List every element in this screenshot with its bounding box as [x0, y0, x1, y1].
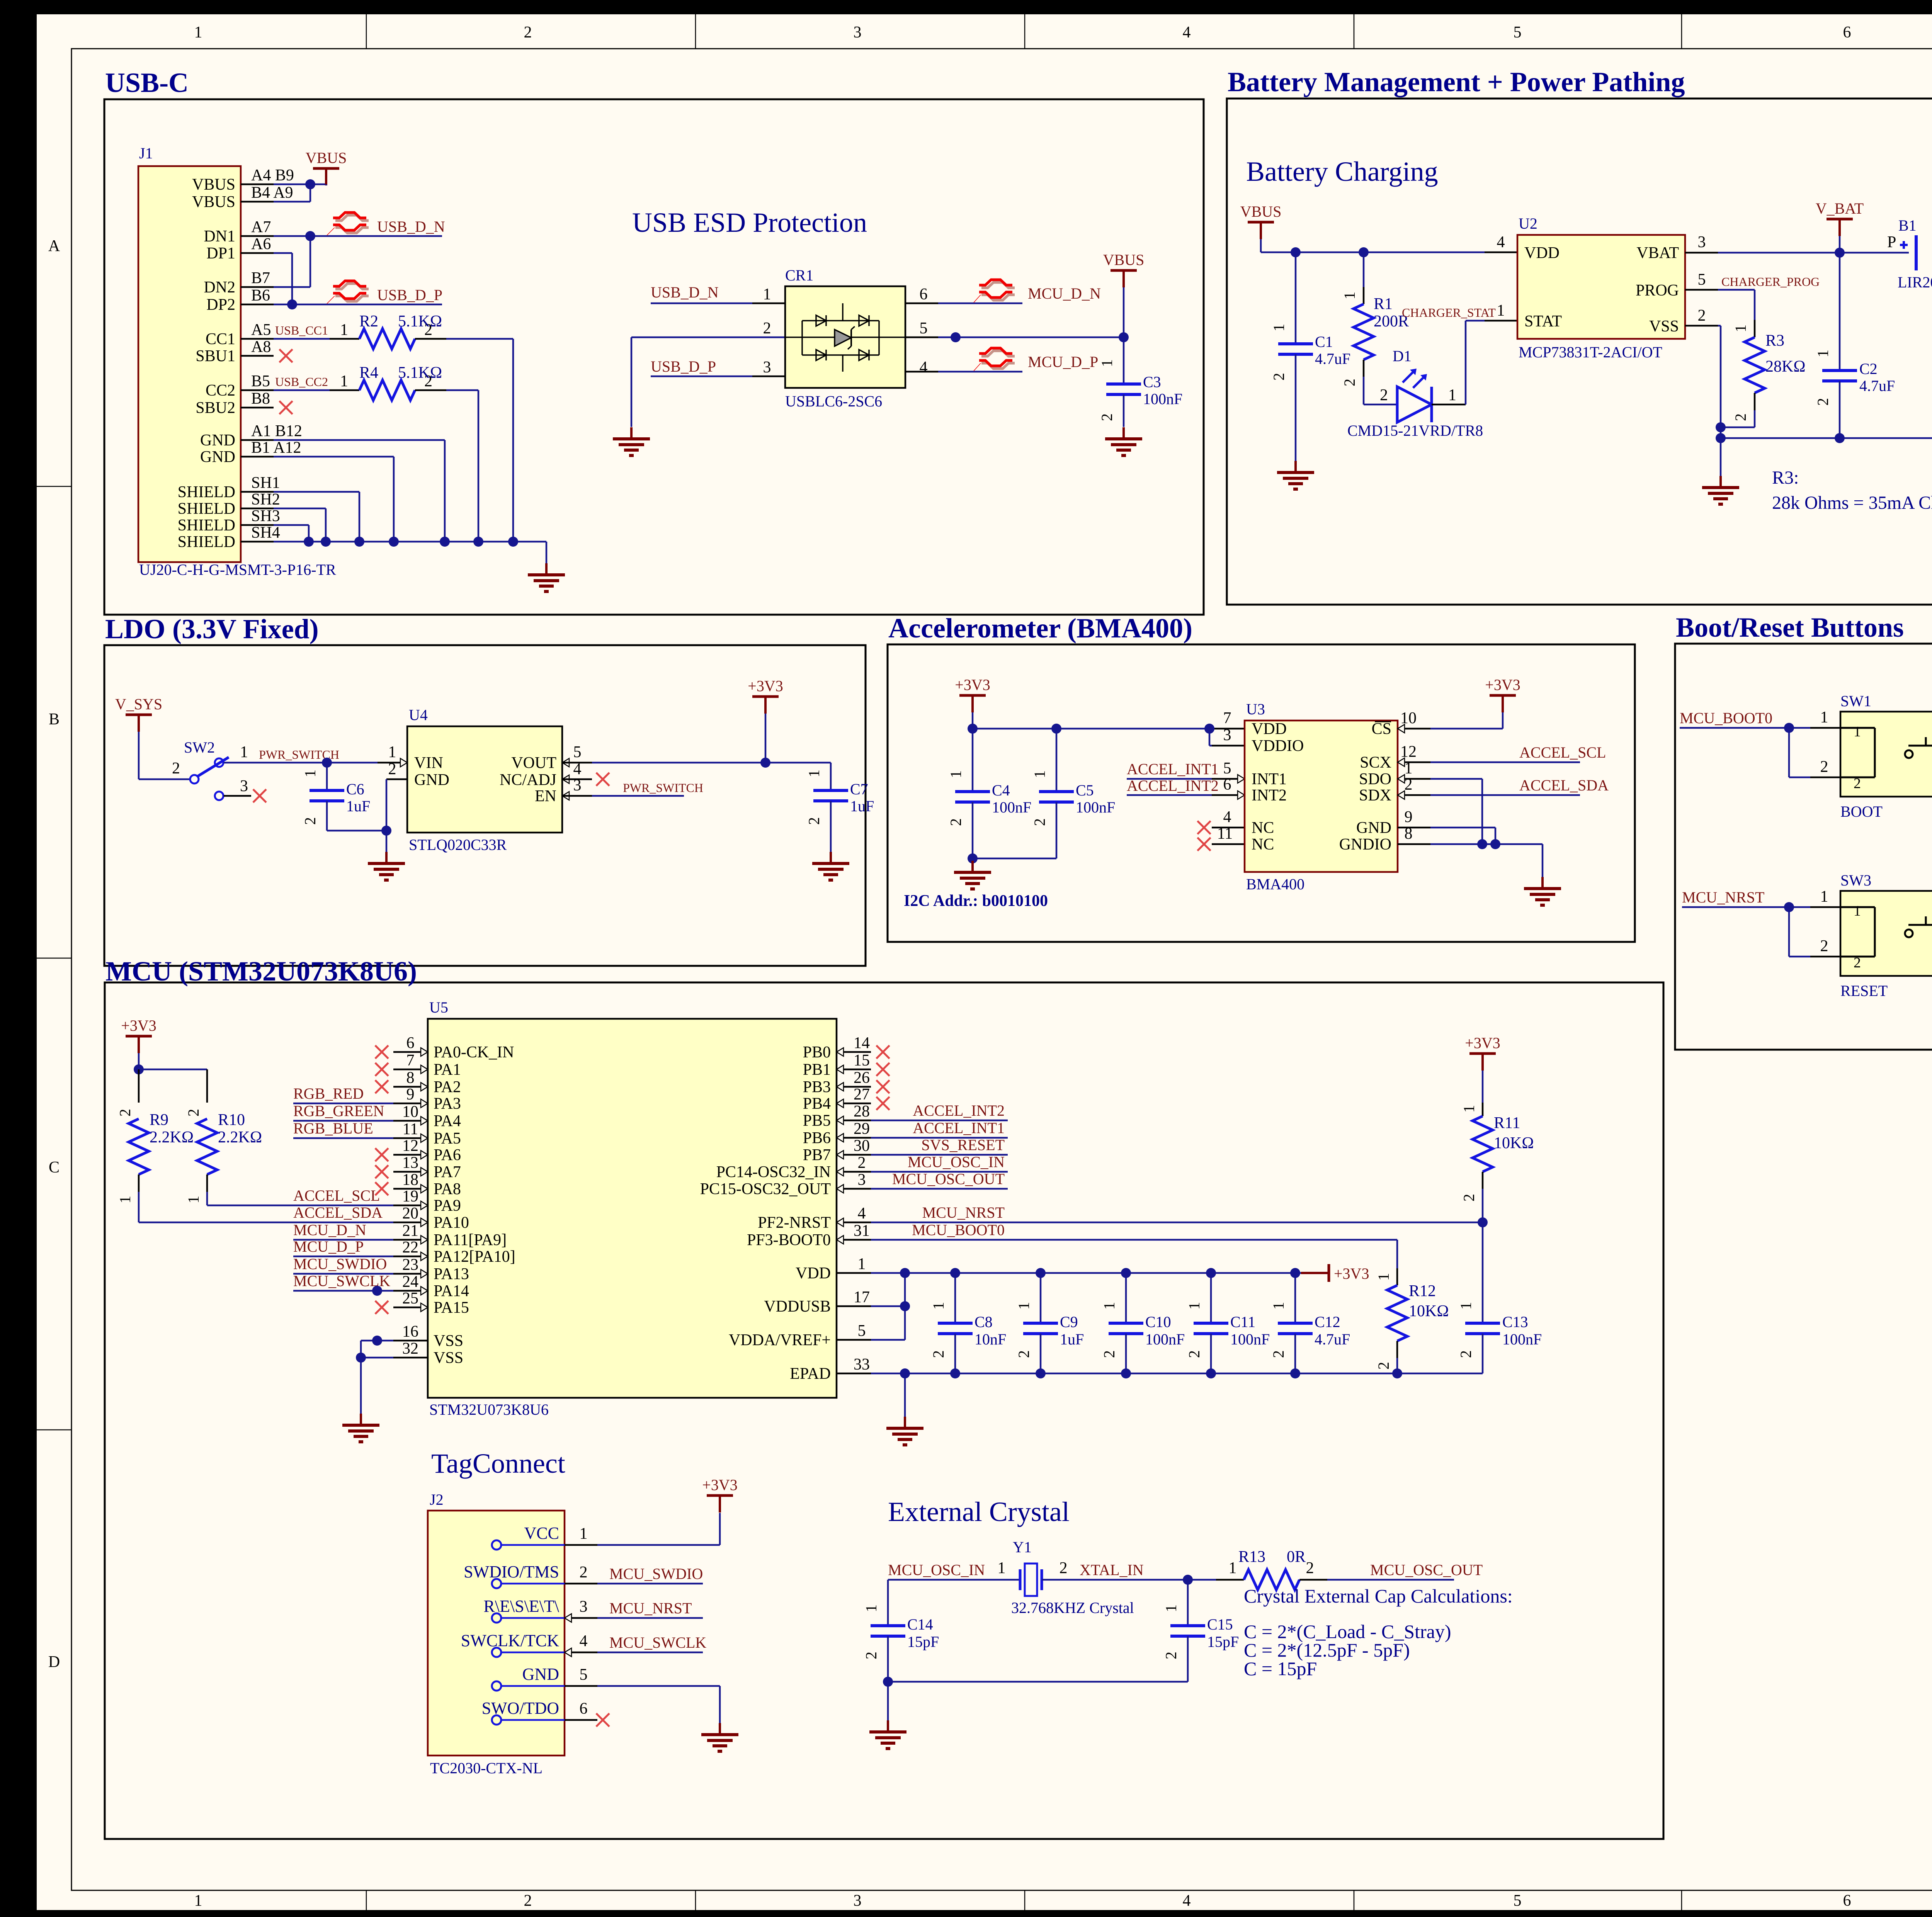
svg-text:SHIELD: SHIELD: [178, 517, 235, 534]
resistor R3 28K: [1754, 320, 1756, 337]
junction: [1835, 248, 1845, 258]
U5 pin 23 PA13: [393, 1273, 428, 1275]
svg-text:1: 1: [185, 1196, 202, 1203]
J1 pin B5 CC2: [241, 389, 274, 391]
no-connect SBU1: [279, 349, 293, 362]
svg-text:R1: R1: [1374, 295, 1393, 313]
svg-text:RGB_BLUE: RGB_BLUE: [293, 1120, 373, 1137]
svg-text:USB_CC2: USB_CC2: [275, 375, 328, 389]
svg-text:SVS_RESET: SVS_RESET: [921, 1136, 1005, 1154]
svg-text:2: 2: [1060, 1559, 1068, 1577]
wire vss down: [360, 1341, 362, 1414]
svg-text:MCU_SWDIO: MCU_SWDIO: [609, 1565, 703, 1582]
U5 pin 14 PB0: [837, 1051, 871, 1053]
junction: [389, 537, 399, 547]
U5 pin 33 EPAD: [837, 1373, 871, 1375]
wire MCU_BOOT0 (mcu): [871, 1239, 1397, 1241]
svg-text:0R: 0R: [1287, 1548, 1306, 1566]
J1 pin SH2 SHIELD: [241, 508, 274, 510]
wire GND2 to bus: [274, 456, 394, 458]
junction: [1478, 1217, 1488, 1227]
U5 pin 31 PF3-BOOT0: [837, 1239, 871, 1241]
svg-text:4: 4: [920, 359, 928, 376]
svg-text:5: 5: [858, 1322, 866, 1340]
svg-text:3: 3: [580, 1598, 588, 1616]
wire MCU_OSC_OUT: [1327, 1579, 1454, 1581]
U5 pin 19 PA9: [393, 1205, 428, 1207]
svg-text:6: 6: [1843, 24, 1851, 41]
svg-text:1: 1: [998, 1559, 1006, 1577]
U5 pin 13 PA7: [393, 1171, 428, 1173]
J1 pin SH1 SHIELD: [241, 491, 274, 493]
U5 pin 30 PB7: [837, 1154, 871, 1156]
wire VBUS pin B4A9: [274, 201, 310, 203]
junction: [372, 1286, 382, 1296]
svg-text:MCU_BOOT0: MCU_BOOT0: [1680, 709, 1772, 727]
capacitor C5 100nF: [1056, 729, 1058, 792]
svg-text:28k Ohms = 35mA Charge Current: 28k Ohms = 35mA Charge Current: [1772, 493, 1932, 513]
resistor R4 5.1K: [274, 389, 330, 391]
capacitor C10 100nF: [1121, 1268, 1131, 1278]
capacitor C14 15pF: [887, 1580, 889, 1626]
wire boot0 pin2: [1788, 728, 1790, 777]
diff pair marker USB_D_P: [335, 284, 369, 289]
wire SDO to GNDIO: [1398, 778, 1430, 780]
svg-text:VDD: VDD: [1252, 720, 1287, 738]
U5 pin 29 PB6: [837, 1137, 871, 1139]
svg-text:STM32U073K8U6: STM32U073K8U6: [429, 1401, 549, 1418]
U5 pin 28 PB5: [837, 1120, 871, 1122]
J1 pin B4 A9 VBUS: [241, 201, 274, 203]
svg-text:CHARGER_STAT: CHARGER_STAT: [1402, 306, 1496, 319]
svg-text:SH3: SH3: [251, 507, 280, 525]
svg-text:SBU2: SBU2: [196, 399, 235, 417]
svg-text:MCU_OSC_IN: MCU_OSC_IN: [888, 1561, 985, 1579]
svg-text:1: 1: [580, 1525, 588, 1543]
wire VDDUSB: [871, 1305, 905, 1307]
svg-text:MCU_D_N: MCU_D_N: [293, 1221, 366, 1239]
no-connect U5 left: [375, 1063, 388, 1076]
svg-text:GND: GND: [522, 1665, 559, 1684]
svg-text:PB5: PB5: [803, 1112, 831, 1130]
U5 pin 16 VSS: [393, 1340, 428, 1342]
wire CR1 pin4 MCU_D_P: [905, 371, 938, 373]
svg-text:INT2: INT2: [1252, 787, 1287, 804]
wire U4 GND: [386, 778, 407, 780]
svg-text:V_BAT: V_BAT: [1816, 200, 1864, 217]
svg-text:DP2: DP2: [206, 296, 235, 314]
svg-text:ACCEL_SCL: ACCEL_SCL: [293, 1187, 380, 1204]
wire CR1 pin5 to VBUS: [905, 336, 938, 338]
junction: [968, 853, 978, 863]
svg-text:7: 7: [406, 1052, 415, 1069]
no-connect U5 right: [876, 1080, 889, 1093]
svg-text:26: 26: [854, 1069, 870, 1087]
svg-text:25: 25: [402, 1290, 418, 1307]
ground charger: [1719, 476, 1722, 488]
svg-text:USBLC6-2SC6: USBLC6-2SC6: [785, 393, 882, 410]
svg-text:10nF: 10nF: [975, 1331, 1006, 1348]
svg-text:CS: CS: [1372, 720, 1391, 738]
svg-text:32.768KHZ Crystal: 32.768KHZ Crystal: [1011, 1599, 1134, 1616]
svg-text:ACCEL_SDA: ACCEL_SDA: [293, 1204, 383, 1221]
svg-text:A7: A7: [251, 218, 271, 236]
svg-text:C: C: [49, 1159, 60, 1176]
svg-text:1: 1: [1229, 1559, 1237, 1577]
U5 pin 1 VDD: [837, 1272, 871, 1274]
svg-text:1: 1: [805, 770, 823, 777]
svg-text:LIR2032: LIR2032: [1898, 274, 1932, 291]
connector J1: [138, 166, 241, 562]
ground U4: [385, 852, 388, 863]
junction: [321, 537, 331, 547]
svg-text:7: 7: [1223, 709, 1231, 727]
U5 pin 4 PF2-NRST: [837, 1222, 871, 1224]
svg-text:TC2030-CTX-NL: TC2030-CTX-NL: [430, 1759, 543, 1777]
junction: [322, 758, 332, 768]
junction: [356, 1353, 366, 1363]
svg-text:Y1: Y1: [1013, 1538, 1032, 1556]
svg-text:R10: R10: [218, 1111, 245, 1129]
svg-text:U5: U5: [429, 999, 448, 1016]
svg-text:3: 3: [1223, 726, 1231, 744]
svg-text:PA0-CK_IN: PA0-CK_IN: [434, 1043, 514, 1061]
svg-text:15pF: 15pF: [1207, 1633, 1239, 1650]
svg-text:14: 14: [854, 1034, 870, 1052]
svg-text:SHIELD: SHIELD: [178, 483, 235, 501]
svg-text:1: 1: [116, 1196, 134, 1203]
svg-text:4: 4: [1183, 24, 1191, 41]
svg-text:R\E\S\E\T\: R\E\S\E\T\: [483, 1597, 559, 1616]
J2 pin 6 SWO/TDO: [492, 1715, 501, 1725]
svg-text:VDDIO: VDDIO: [1252, 737, 1304, 755]
J1 pin A1 B12 GND: [241, 439, 274, 441]
svg-text:+3V3: +3V3: [955, 676, 990, 693]
resistor R13 0R: [1188, 1579, 1216, 1581]
svg-text:XTAL_IN: XTAL_IN: [1080, 1561, 1144, 1579]
resistor R1 200R: [1363, 252, 1365, 287]
wire D1 to STAT: [1432, 404, 1466, 406]
section box LDO: [104, 645, 866, 966]
wire SH3 to bus: [274, 524, 309, 526]
wire MCU_D_P: [293, 1256, 393, 1258]
svg-text:C12: C12: [1315, 1313, 1340, 1331]
wire VBAT to V_BAT: [1685, 252, 1718, 254]
svg-text:1uF: 1uF: [850, 797, 874, 815]
svg-text:5: 5: [573, 743, 582, 761]
wire VCC to 3V3: [597, 1544, 720, 1546]
svg-text:ACCEL_INT2: ACCEL_INT2: [1127, 777, 1219, 794]
svg-text:PA4: PA4: [434, 1112, 461, 1130]
svg-text:PA15: PA15: [434, 1299, 469, 1317]
svg-text:VDDA/VREF+: VDDA/VREF+: [729, 1331, 831, 1349]
svg-text:A6: A6: [251, 235, 271, 253]
svg-text:1: 1: [1854, 903, 1861, 919]
svg-text:6: 6: [1843, 1892, 1851, 1910]
svg-text:PWR_SWITCH: PWR_SWITCH: [623, 781, 703, 795]
svg-text:ACCEL_INT1: ACCEL_INT1: [1127, 760, 1219, 778]
svg-text:2: 2: [1854, 775, 1861, 792]
svg-text:2: 2: [172, 760, 180, 777]
svg-text:10KΩ: 10KΩ: [1409, 1302, 1449, 1320]
svg-text:+3V3: +3V3: [1334, 1265, 1369, 1282]
svg-text:15: 15: [854, 1052, 870, 1069]
U5 pin 2 PC14-OSC32_IN: [837, 1171, 871, 1173]
wire MCU_SWDIO (tag): [597, 1583, 703, 1585]
svg-text:STAT: STAT: [1524, 313, 1562, 330]
wire VOUT to 3V3: [562, 762, 592, 764]
svg-text:3: 3: [1698, 233, 1706, 251]
wire MCU_NRST (tag): [597, 1617, 703, 1619]
junction: [305, 179, 315, 189]
wire SW2 pin3 nc: [224, 795, 251, 797]
wire VSS down: [1685, 325, 1718, 327]
svg-text:1: 1: [340, 321, 348, 339]
svg-text:SHIELD: SHIELD: [178, 533, 235, 551]
U5 pin 17 VDDUSB: [837, 1305, 871, 1307]
svg-text:VSS: VSS: [434, 1332, 463, 1350]
svg-text:1: 1: [1185, 1302, 1203, 1310]
switch SW3: [1840, 891, 1932, 976]
svg-text:SH2: SH2: [251, 491, 280, 508]
wire VDDA: [871, 1339, 905, 1341]
svg-text:6: 6: [920, 286, 928, 303]
regulator U4: [407, 726, 562, 833]
svg-text:MCU_D_N: MCU_D_N: [1028, 285, 1101, 302]
capacitor C15 15pF: [1187, 1580, 1189, 1626]
no-connect U5 left: [375, 1045, 388, 1059]
svg-text:PB0: PB0: [803, 1043, 831, 1061]
svg-text:2: 2: [1098, 413, 1116, 421]
svg-text:1: 1: [1098, 359, 1116, 367]
svg-text:2: 2: [1185, 1350, 1203, 1358]
wire shield bus: [274, 541, 546, 543]
svg-text:3: 3: [854, 24, 862, 41]
svg-text:27: 27: [854, 1086, 870, 1103]
svg-text:SW2: SW2: [184, 739, 215, 756]
svg-text:2: 2: [1031, 818, 1048, 826]
svg-text:17: 17: [854, 1288, 870, 1306]
wire DN2: [274, 286, 310, 288]
svg-text:SW3: SW3: [1840, 872, 1871, 889]
J1 pin A6 DP1: [241, 252, 274, 254]
svg-text:2: 2: [1162, 1652, 1180, 1659]
J2 pin 3 R\E\S\E\T\: [492, 1613, 501, 1623]
wire MCU_D_N: [293, 1239, 393, 1241]
no-connect U5 left: [375, 1301, 388, 1314]
J1 pin B7 DN2: [241, 286, 274, 288]
svg-text:SCX: SCX: [1360, 754, 1391, 772]
svg-text:1uF: 1uF: [346, 797, 370, 815]
wire DP1: [274, 252, 292, 254]
J2 pin 5 GND: [492, 1681, 501, 1691]
wire RGB_RED: [293, 1103, 393, 1105]
wire PROG to R3: [1685, 289, 1718, 291]
junction: [287, 299, 297, 309]
ground U3: [1541, 877, 1544, 889]
svg-text:30: 30: [854, 1137, 870, 1155]
svg-text:GNDIO: GNDIO: [1339, 836, 1391, 853]
junction: [440, 537, 450, 547]
junction: [1051, 724, 1061, 734]
svg-text:PF2-NRST: PF2-NRST: [758, 1214, 831, 1232]
svg-text:VBUS: VBUS: [192, 176, 235, 194]
section box USB-C: [104, 99, 1204, 615]
svg-text:VBUS: VBUS: [306, 149, 347, 167]
LED D1: [1364, 404, 1397, 406]
svg-text:C2: C2: [1859, 360, 1878, 377]
wire to CR1 pin3: [651, 376, 752, 377]
svg-text:10: 10: [402, 1103, 418, 1121]
svg-text:2: 2: [1015, 1350, 1032, 1358]
svg-text:V_SYS: V_SYS: [115, 695, 162, 713]
svg-text:3: 3: [858, 1171, 866, 1189]
svg-text:VBAT: VBAT: [1636, 244, 1679, 262]
svg-text:2: 2: [1380, 386, 1388, 404]
J1 pin SH3 SHIELD: [241, 524, 274, 526]
svg-text:1: 1: [1820, 888, 1828, 906]
junction: [473, 537, 483, 547]
svg-text:B6: B6: [251, 287, 270, 304]
svg-text:C3: C3: [1143, 373, 1161, 391]
wire R4 to bus: [446, 389, 478, 391]
svg-text:2: 2: [947, 818, 964, 826]
svg-text:ACCEL_SDA: ACCEL_SDA: [1519, 777, 1609, 794]
svg-text:15pF: 15pF: [907, 1633, 939, 1650]
svg-text:+3V3: +3V3: [121, 1017, 156, 1034]
svg-text:A: A: [48, 237, 60, 255]
junction: [883, 1677, 893, 1687]
svg-text:4: 4: [1497, 233, 1505, 251]
svg-text:MCU_OSC_IN: MCU_OSC_IN: [908, 1153, 1005, 1171]
svg-text:28KΩ: 28KΩ: [1765, 358, 1806, 376]
svg-text:2: 2: [524, 1892, 532, 1910]
svg-text:2: 2: [524, 24, 532, 41]
row ticks left/right: [37, 486, 71, 487]
junction: [1490, 839, 1500, 849]
svg-text:MCU (STM32U073K8U6): MCU (STM32U073K8U6): [105, 956, 417, 987]
svg-text:B8: B8: [251, 390, 270, 408]
svg-text:1: 1: [763, 286, 771, 303]
resistor R9 2.2K: [138, 1069, 140, 1103]
svg-text:U2: U2: [1519, 215, 1537, 232]
wire to CR1 pin1: [651, 303, 752, 304]
svg-text:2: 2: [763, 319, 771, 337]
wire SVS_RESET (mcu): [871, 1154, 1008, 1156]
wire ACCEL_INT2 (mcu): [871, 1120, 1008, 1122]
wire R2 to bus: [446, 338, 513, 340]
svg-text:2: 2: [1270, 1350, 1287, 1358]
svg-text:External Crystal: External Crystal: [888, 1496, 1070, 1527]
svg-text:1: 1: [1341, 292, 1358, 299]
svg-text:20: 20: [402, 1205, 418, 1222]
junction: [1784, 723, 1794, 733]
svg-text:1: 1: [388, 743, 396, 761]
svg-text:Boot/Reset Buttons: Boot/Reset Buttons: [1676, 612, 1904, 643]
wire caps to ground: [972, 858, 974, 861]
svg-text:ACCEL_INT1: ACCEL_INT1: [913, 1119, 1005, 1137]
svg-text:PB6: PB6: [803, 1129, 831, 1147]
svg-text:1: 1: [1162, 1604, 1180, 1612]
no-connect SW2 pin3: [253, 789, 266, 802]
svg-text:RGB_RED: RGB_RED: [293, 1085, 364, 1102]
svg-text:4.7uF: 4.7uF: [1315, 350, 1350, 367]
wire ACCEL_INT1 (mcu): [871, 1137, 1008, 1139]
no-connect U5 right: [876, 1045, 889, 1059]
wire EPAD bus: [871, 1373, 1483, 1375]
wire to ground xtal: [887, 1682, 889, 1720]
svg-text:VDD: VDD: [1524, 244, 1560, 262]
svg-text:SWO/TDO: SWO/TDO: [482, 1699, 559, 1718]
svg-text:PROG: PROG: [1636, 282, 1679, 299]
svg-text:B5: B5: [251, 372, 270, 390]
svg-text:2: 2: [1820, 937, 1828, 955]
J1 pin B8 SBU2: [241, 407, 274, 409]
svg-text:5: 5: [1698, 271, 1706, 289]
svg-text:PB7: PB7: [803, 1146, 831, 1164]
svg-text:4: 4: [1223, 808, 1231, 826]
svg-text:9: 9: [1405, 808, 1413, 826]
svg-text:21: 21: [402, 1222, 418, 1240]
svg-text:+3V3: +3V3: [748, 677, 783, 695]
svg-text:2: 2: [1306, 1559, 1314, 1577]
section box Accelerometer: [888, 644, 1635, 942]
wire cap bus: [888, 1681, 1188, 1683]
svg-text:10: 10: [1400, 709, 1417, 727]
svg-text:Battery Management + Power Pat: Battery Management + Power Pathing: [1228, 66, 1685, 97]
svg-text:2: 2: [1854, 955, 1861, 971]
svg-text:C10: C10: [1145, 1313, 1171, 1331]
wire ACCEL_SDA mcu: [139, 1222, 393, 1224]
no-connect U3 NC11: [1212, 843, 1245, 845]
svg-text:2: 2: [1270, 373, 1287, 381]
svg-text:USB_D_N: USB_D_N: [377, 218, 445, 235]
wire SH2 to bus: [274, 508, 326, 510]
wire GND1 to bus: [274, 439, 445, 441]
junction: [1477, 839, 1487, 849]
svg-text:+3V3: +3V3: [1465, 1034, 1500, 1052]
J1 pin SH4 SHIELD: [241, 541, 274, 543]
junction: [1183, 1575, 1193, 1585]
wire ACCEL_INT2: [1127, 794, 1212, 796]
svg-text:BOOT: BOOT: [1840, 803, 1883, 820]
svg-text:RGB_GREEN: RGB_GREEN: [293, 1102, 384, 1120]
section box Battery Management: [1227, 99, 1932, 605]
U5 pin 15 PB1: [837, 1069, 871, 1071]
svg-text:STLQ020C33R: STLQ020C33R: [409, 836, 507, 853]
svg-text:1: 1: [862, 1604, 880, 1612]
svg-text:PA7: PA7: [434, 1163, 461, 1181]
zone ticks top/bottom: [366, 14, 367, 49]
svg-text:J1: J1: [139, 144, 153, 162]
svg-text:VIN: VIN: [414, 754, 443, 772]
capacitor C4 100nF: [972, 729, 974, 792]
junction: [508, 537, 518, 547]
ESD diode array CR1: [785, 286, 905, 388]
svg-text:PA14: PA14: [434, 1282, 469, 1300]
svg-text:D1: D1: [1393, 347, 1412, 365]
U5 pin 24 PA14: [393, 1290, 428, 1292]
svg-text:B7: B7: [251, 269, 270, 287]
U5 pin 32 VSS: [393, 1357, 428, 1359]
junction: [760, 758, 770, 768]
svg-text:CR1: CR1: [785, 267, 813, 284]
svg-text:GND: GND: [414, 771, 449, 789]
junction: [900, 1301, 910, 1311]
section box MCU: [105, 982, 1663, 1839]
svg-text:MCU_D_P: MCU_D_P: [1028, 353, 1098, 370]
junction: [900, 1268, 910, 1278]
